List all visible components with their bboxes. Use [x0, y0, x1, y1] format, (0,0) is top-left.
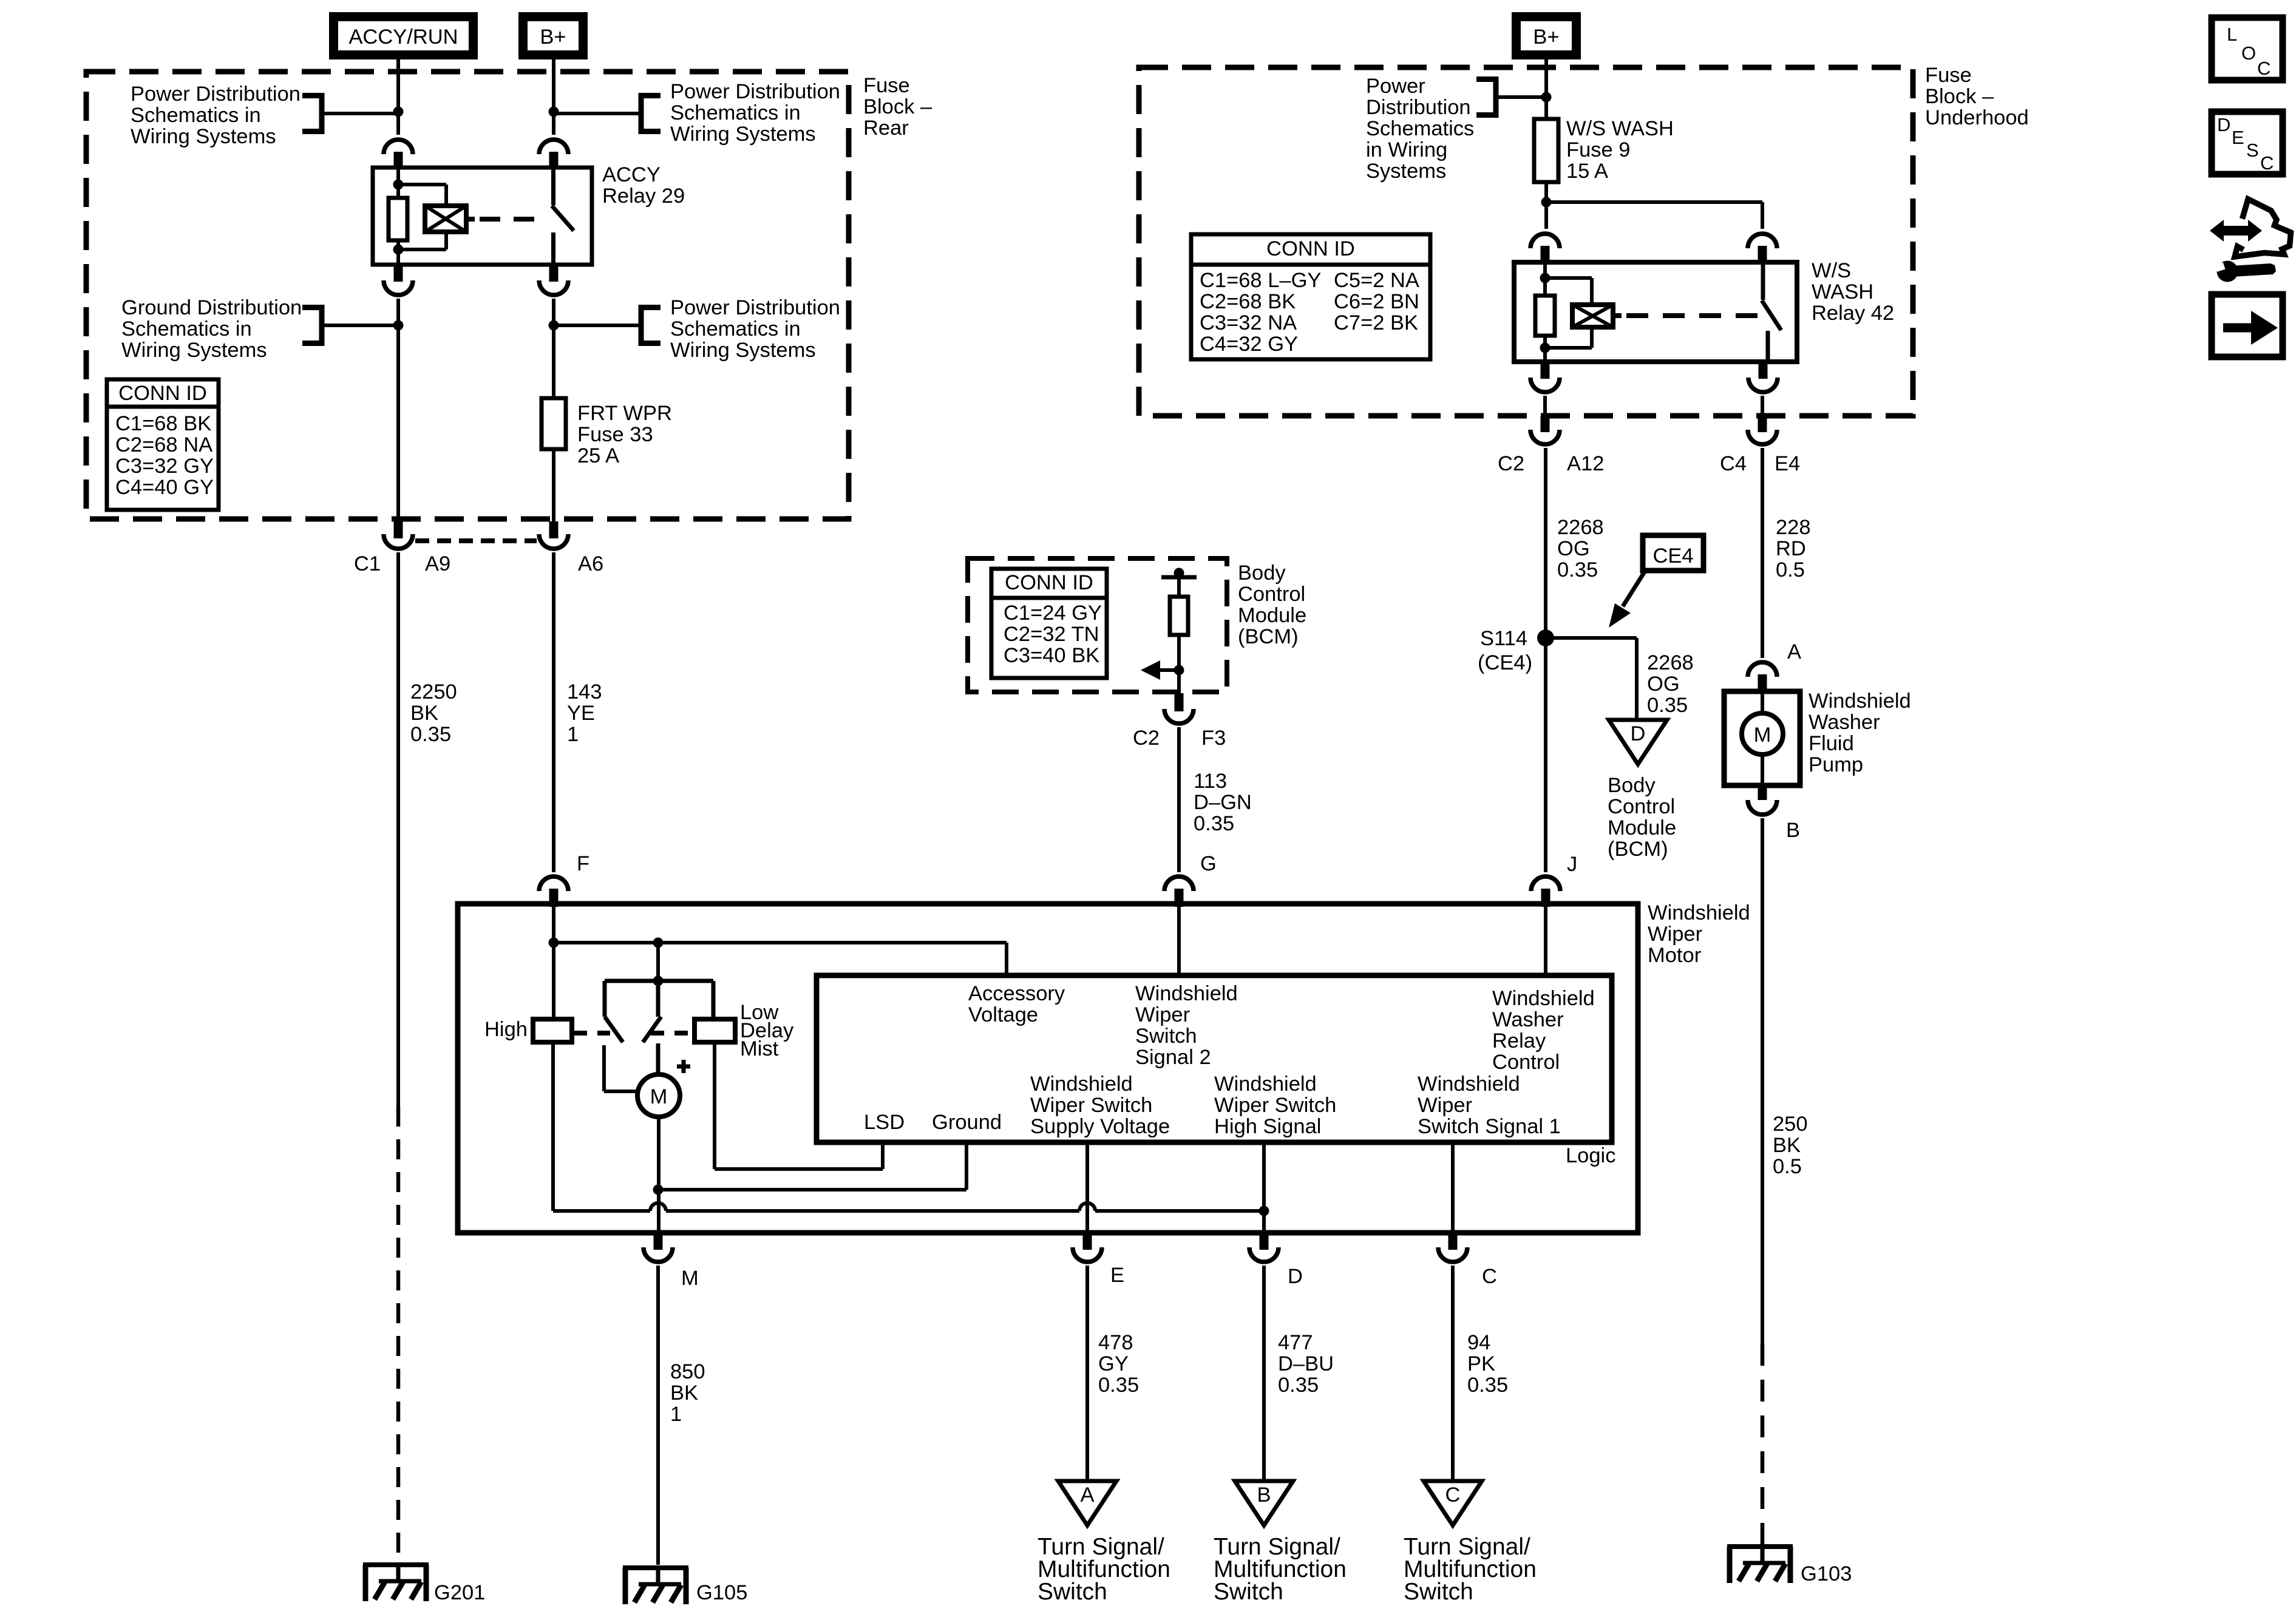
relay 29 switch bottom contact: [551, 232, 555, 265]
svg-text:Power Distribution: Power Distribution: [131, 83, 301, 106]
logic pin leg supply voltage E: [1085, 1142, 1089, 1235]
svg-text:(CE4): (CE4): [1478, 651, 1532, 674]
label Windshield Wiper Motor: [1648, 901, 1750, 967]
node junction B+ x power distribution: [549, 107, 559, 117]
connector dome into relay42 switch side: [1748, 234, 1777, 263]
svg-text:C4=40 GY: C4=40 GY: [115, 476, 214, 499]
svg-text:C1=68 L–GY: C1=68 L–GY: [1200, 269, 1321, 292]
relay 29 coil top node: [393, 180, 404, 190]
label Power Distribution Schematics (lower right): [670, 296, 840, 362]
solenoid relay 29 coil: [425, 206, 466, 232]
module box BCM dashed enclosure: [968, 558, 1227, 692]
label wire 2268 OG 0.35 (branch): [1647, 651, 1694, 717]
svg-text:CONN ID: CONN ID: [1005, 571, 1093, 594]
wiper rocker left drop: [603, 981, 607, 1017]
relay 29 coil bottom node: [393, 245, 404, 255]
svg-text:M: M: [681, 1267, 699, 1290]
svg-text:D: D: [2217, 114, 2230, 135]
svg-text:D–GN: D–GN: [1194, 791, 1252, 814]
svg-text:Rear: Rear: [863, 117, 909, 140]
svg-text:0.35: 0.35: [1647, 694, 1688, 717]
label W/S WASH Relay 42: [1812, 259, 1894, 325]
logic box: [817, 975, 1612, 1142]
svg-text:F: F: [577, 852, 589, 875]
bracket power distribution lower-right: [641, 305, 661, 346]
svg-text:0.5: 0.5: [1776, 558, 1805, 581]
wire to power distribution bracket (top right): [554, 112, 641, 115]
svg-text:D: D: [1288, 1265, 1303, 1288]
svg-text:(BCM): (BCM): [1238, 625, 1299, 648]
wiper switch actuator dashes: [574, 1031, 695, 1036]
relay 29 coil wire top: [396, 168, 400, 185]
svg-text:PK: PK: [1467, 1352, 1495, 1375]
relay 42 coil bypass loop: [1545, 278, 1592, 348]
svg-text:Block –: Block –: [863, 95, 932, 118]
svg-text:M: M: [650, 1085, 668, 1108]
component box windshield wiper motor: [458, 904, 1638, 1233]
relay box W/S WASH Relay 42: [1514, 262, 1797, 362]
svg-text:Windshield: Windshield: [1135, 982, 1238, 1005]
svg-text:S: S: [2246, 140, 2259, 161]
svg-text:W/S: W/S: [1812, 259, 1851, 282]
label J: [1567, 853, 1577, 876]
wire circuit 228 RD: [1761, 448, 1764, 658]
label Fuse Block - Rear: [863, 74, 932, 140]
label C2 (BCM conn): [1133, 727, 1160, 750]
svg-text:E4: E4: [1775, 452, 1800, 475]
connector dome into relay 29 switch side: [539, 140, 568, 169]
svg-text:94: 94: [1467, 1331, 1490, 1354]
svg-text:OG: OG: [1647, 673, 1680, 696]
wiper rocker feed wire: [656, 943, 660, 981]
svg-text:Module: Module: [1608, 816, 1676, 839]
label FRT WPR Fuse 33 25 A: [577, 402, 672, 467]
label wire 250 BK 0.5: [1773, 1113, 1808, 1178]
svg-text:GY: GY: [1098, 1352, 1129, 1375]
svg-text:Wiring Systems: Wiring Systems: [131, 125, 276, 148]
label wire 2250 BK 0.35: [410, 680, 457, 746]
svg-text:O: O: [2241, 42, 2256, 64]
svg-text:0.35: 0.35: [1557, 558, 1598, 581]
table CONN ID (underhood): [1191, 234, 1430, 359]
svg-text:Washer: Washer: [1492, 1008, 1564, 1031]
logic pin leg accessory voltage: [1005, 943, 1008, 975]
svg-text:Fluid: Fluid: [1809, 732, 1854, 755]
label ACCY Relay 29: [602, 163, 685, 208]
wire circuit 250 BK solid segment: [1761, 818, 1764, 1344]
logic pin leg wiper switch signal 2: [1177, 907, 1181, 975]
wiper rocker right blade: [643, 1017, 661, 1042]
svg-text:C6=2 BN: C6=2 BN: [1334, 290, 1419, 313]
node junction B+ x power distribution (underhood): [1541, 92, 1552, 103]
svg-text:15 A: 15 A: [1566, 160, 1608, 183]
wire LSD leg to low contact: [715, 1042, 883, 1169]
wiper rocker center drop: [656, 981, 661, 1017]
BCM internal wire to output node: [1177, 635, 1181, 693]
label G: [1200, 852, 1217, 875]
node junction motor x ground leg: [653, 1185, 664, 1195]
washer pump feed wire: [1761, 693, 1764, 714]
svg-text:BK: BK: [1773, 1134, 1801, 1157]
svg-text:D–BU: D–BU: [1278, 1352, 1334, 1375]
label LSD: [864, 1111, 905, 1134]
icon right-arrow box: [2212, 294, 2283, 357]
label M (motor conn): [681, 1267, 699, 1290]
svg-text:Voltage: Voltage: [968, 1003, 1038, 1026]
svg-text:Fuse: Fuse: [1925, 64, 1972, 87]
svg-text:G: G: [1200, 852, 1217, 875]
svg-text:C: C: [2260, 152, 2274, 174]
svg-text:113: 113: [1194, 770, 1227, 793]
connector stub+cup C4/E4: [1748, 416, 1777, 444]
connector box B+ (rear): [518, 12, 588, 59]
svg-text:Switch Signal 1: Switch Signal 1: [1418, 1115, 1561, 1138]
label Ground: [932, 1111, 1002, 1134]
connector cup out of relay 29 coil side: [384, 265, 413, 295]
ground G201: [363, 1562, 429, 1601]
label Ground Distribution Schematics: [121, 296, 302, 362]
svg-text:Power: Power: [1366, 75, 1425, 98]
wire relay29 coil out to ground distribution node: [396, 299, 400, 398]
label C (motor conn): [1482, 1265, 1497, 1288]
relay 29 switch blade: [552, 206, 574, 231]
label A6: [578, 552, 603, 575]
label D (motor conn): [1288, 1265, 1303, 1288]
svg-text:Windshield: Windshield: [1492, 987, 1595, 1010]
svg-text:CONN ID: CONN ID: [1266, 237, 1355, 260]
relay box ACCY Relay 29: [373, 168, 592, 265]
wire to power distribution bracket (lower right): [554, 324, 639, 327]
label Windshield Wiper Switch High Signal: [1214, 1073, 1336, 1138]
svg-text:Switch: Switch: [1404, 1579, 1473, 1605]
wiper motor output wire: [657, 1117, 661, 1235]
svg-text:Relay 42: Relay 42: [1812, 302, 1894, 325]
connector cup out of relay 29 switch side: [539, 265, 568, 295]
wiper motor internal accessory bus: [554, 943, 1007, 975]
svg-text:850: 850: [670, 1360, 705, 1383]
svg-text:Windshield: Windshield: [1418, 1073, 1520, 1096]
svg-text:LSD: LSD: [864, 1111, 905, 1134]
svg-text:C: C: [2257, 58, 2271, 79]
connector stub+cup M: [644, 1233, 673, 1262]
label A9: [425, 552, 450, 575]
svg-text:0.35: 0.35: [1194, 812, 1234, 835]
label C4: [1720, 452, 1747, 475]
svg-text:B+: B+: [540, 25, 566, 49]
wire circuit 94 PK: [1451, 1266, 1455, 1481]
wire circuit 850 BK: [656, 1266, 660, 1565]
relay 42 coil top node: [1540, 273, 1550, 283]
label Turn Signal Multifunction Switch (B): [1214, 1534, 1347, 1605]
relay 42 coil wire top: [1543, 262, 1547, 278]
svg-text:C1=68 BK: C1=68 BK: [115, 412, 211, 435]
bracket power distribution top-right: [641, 93, 661, 134]
svg-text:Wiring Systems: Wiring Systems: [670, 123, 816, 146]
label Windshield Wiper Switch Signal 1: [1418, 1073, 1561, 1138]
connector stub+cup C2/A12: [1530, 416, 1560, 444]
wiper rocker right drop to low contact: [712, 981, 716, 1019]
relay 42 actuator dashed link: [1613, 313, 1758, 318]
svg-text:FRT WPR: FRT WPR: [577, 402, 672, 425]
label S114 (CE4): [1478, 627, 1532, 674]
svg-text:W/S WASH: W/S WASH: [1566, 117, 1674, 140]
connector cup out of relay 42 coil side: [1530, 362, 1560, 392]
svg-text:Systems: Systems: [1366, 160, 1446, 183]
BCM internal output node: [1174, 665, 1184, 676]
svg-text:Mist: Mist: [740, 1037, 779, 1060]
svg-text:Switch: Switch: [1135, 1025, 1197, 1048]
relay 42 switch top contact: [1761, 262, 1765, 300]
svg-text:Washer: Washer: [1809, 711, 1880, 734]
svg-text:C3=32 GY: C3=32 GY: [115, 455, 214, 478]
wire high feed from High contact down: [551, 1042, 555, 1211]
label Body Control Module BCM: [1238, 561, 1306, 648]
relay 42 switch bottom contact: [1766, 331, 1770, 362]
svg-text:B: B: [1786, 819, 1800, 842]
svg-text:Fuse 9: Fuse 9: [1566, 138, 1630, 161]
node junction high signal bus x D leg: [1259, 1206, 1269, 1216]
label wire 850 BK 1: [670, 1360, 705, 1426]
connector stub+cup C2/F3 out of BCM: [1164, 693, 1194, 724]
wire fuse9 to branch node: [1544, 182, 1548, 229]
resistor BCM internal: [1170, 597, 1188, 635]
ground G105: [623, 1565, 688, 1604]
connector stub+cup D: [1249, 1233, 1279, 1262]
svg-text:Wiper Switch: Wiper Switch: [1030, 1094, 1152, 1117]
wire ACCY/RUN feed into fuse block: [396, 59, 400, 135]
svg-text:Control: Control: [1608, 795, 1675, 818]
svg-text:C1: C1: [354, 552, 381, 575]
wire B+ underhood feed: [1544, 59, 1548, 119]
svg-text:A: A: [1787, 640, 1801, 663]
label Turn Signal Multifunction Switch (C): [1404, 1534, 1537, 1605]
svg-text:Underhood: Underhood: [1925, 106, 2029, 129]
node junction fuse9 branch: [1541, 197, 1552, 208]
svg-text:C2=68 BK: C2=68 BK: [1200, 290, 1296, 313]
label Windshield Wiper Switch Signal 2: [1135, 982, 1238, 1069]
table CONN ID (fuse block rear): [107, 379, 219, 510]
svg-text:Power Distribution: Power Distribution: [670, 80, 840, 103]
label G201: [434, 1581, 485, 1604]
svg-text:L: L: [2227, 24, 2237, 45]
dashed connector tie A9-A6: [415, 538, 537, 543]
svg-text:2268: 2268: [1557, 516, 1604, 539]
wire branch to relay42 switch side: [1546, 202, 1762, 229]
wire to ground distribution bracket: [324, 324, 398, 327]
contact box Low Delay Mist: [695, 1019, 735, 1042]
connector stub+cup C: [1438, 1233, 1467, 1262]
label F3: [1201, 727, 1226, 750]
svg-text:2268: 2268: [1647, 651, 1694, 674]
connector box ACCY/RUN: [329, 12, 478, 59]
connector stub+cup C1/A9: [384, 521, 413, 549]
svg-text:0.35: 0.35: [1098, 1374, 1139, 1397]
bracket ground distribution: [302, 305, 322, 346]
svg-text:C2=32 TN: C2=32 TN: [1004, 623, 1099, 646]
fuse block - rear dashed enclosure: [86, 72, 849, 519]
off-page triangle D to BCM: [1609, 720, 1667, 764]
label Logic: [1566, 1144, 1615, 1167]
label wire 477 D-BU 0.35: [1278, 1331, 1334, 1397]
connector dome into relay 29 coil side: [384, 140, 413, 169]
svg-text:G105: G105: [696, 1581, 747, 1604]
connector dome into relay42 coil side: [1530, 234, 1560, 263]
svg-text:Wiper Switch: Wiper Switch: [1214, 1094, 1336, 1117]
wire relay42 switch out to block edge: [1761, 396, 1764, 419]
svg-text:Power Distribution: Power Distribution: [670, 296, 840, 319]
fuse W/S WASH Fuse 9: [1534, 119, 1558, 182]
svg-text:2250: 2250: [410, 680, 457, 703]
svg-text:Ground: Ground: [932, 1111, 1002, 1134]
svg-text:C7=2 BK: C7=2 BK: [1334, 311, 1418, 334]
svg-text:B+: B+: [1533, 25, 1559, 49]
svg-text:in Wiring: in Wiring: [1366, 138, 1447, 161]
svg-text:G201: G201: [434, 1581, 485, 1604]
wire high signal bus segment 3: [1095, 1209, 1264, 1213]
svg-text:E: E: [2232, 127, 2244, 148]
svg-text:D: D: [1631, 722, 1646, 745]
svg-text:Motor: Motor: [1648, 944, 1701, 967]
relay 42 coil wire bottom: [1543, 348, 1547, 362]
relay 29 coil wire bottom: [396, 249, 400, 265]
svg-text:C3=32 NA: C3=32 NA: [1200, 311, 1297, 334]
svg-text:Wiring Systems: Wiring Systems: [670, 339, 816, 362]
svg-text:0.35: 0.35: [410, 723, 451, 746]
relay 42 switch blade: [1762, 300, 1781, 330]
svg-text:477: 477: [1278, 1331, 1313, 1354]
BCM internal signal arrow: [1141, 660, 1179, 680]
label E (motor conn): [1110, 1264, 1124, 1287]
svg-text:A9: A9: [425, 552, 450, 575]
bracket power distribution underhood: [1476, 76, 1496, 118]
svg-text:S114: S114: [1480, 627, 1527, 650]
wire circuit 2250 BK dashed segment: [396, 1107, 401, 1565]
label G105: [696, 1581, 747, 1604]
svg-text:Wiper: Wiper: [1418, 1094, 1472, 1117]
svg-text:Windshield: Windshield: [1809, 690, 1911, 713]
svg-text:Switch: Switch: [1214, 1579, 1283, 1605]
svg-text:0.35: 0.35: [1278, 1374, 1319, 1397]
wiper motor brush branch: [604, 1045, 637, 1091]
wiper motor armature stub: [656, 1043, 661, 1076]
svg-text:0.35: 0.35: [1467, 1374, 1508, 1397]
relay 29 coil bypass loop: [398, 185, 446, 249]
svg-text:478: 478: [1098, 1331, 1133, 1354]
svg-text:CE4: CE4: [1652, 544, 1693, 568]
logic pin leg switch signal 1 C: [1451, 1142, 1455, 1235]
svg-text:Logic: Logic: [1566, 1144, 1615, 1167]
svg-text:G103: G103: [1801, 1562, 1852, 1585]
svg-text:Wiring Systems: Wiring Systems: [121, 339, 267, 362]
bracket power distribution top-left: [302, 93, 322, 134]
svg-text:Signal 2: Signal 2: [1135, 1046, 1211, 1069]
svg-text:Windshield: Windshield: [1214, 1073, 1317, 1096]
label wire 228 RD 0.5: [1776, 516, 1811, 581]
wire circuit 143 YE down to F: [552, 552, 555, 872]
label High: [484, 1018, 528, 1041]
off-page triangle B: [1235, 1481, 1293, 1525]
off-page triangle C: [1424, 1481, 1482, 1525]
relay 29 switch top contact: [551, 168, 555, 205]
svg-text:(BCM): (BCM): [1608, 838, 1668, 861]
svg-text:CONN ID: CONN ID: [118, 382, 207, 405]
connector dome F into wiper motor: [539, 876, 568, 907]
label B (pump): [1786, 819, 1800, 842]
fuse FRT WPR Fuse 33: [542, 398, 566, 449]
wire circuit 477 D-BU: [1262, 1266, 1266, 1481]
wiper rocker bar: [605, 976, 713, 986]
svg-text:Schematics in: Schematics in: [670, 317, 801, 341]
label wire 2268 OG 0.35: [1557, 516, 1604, 581]
logic pin leg washer relay control: [1544, 907, 1547, 975]
svg-text:E: E: [1110, 1264, 1124, 1287]
callout arrow CE4 to S114: [1609, 572, 1645, 628]
svg-text:Schematics in: Schematics in: [131, 104, 261, 127]
label wire 478 GY 0.35: [1098, 1331, 1139, 1397]
connector dome A into washer pump: [1748, 662, 1777, 693]
svg-text:Schematics in: Schematics in: [121, 317, 252, 341]
label wire 113 D-GN 0.35: [1194, 770, 1252, 835]
svg-text:OG: OG: [1557, 537, 1590, 560]
svg-text:C1=24 GY: C1=24 GY: [1004, 602, 1102, 625]
svg-text:A6: A6: [578, 552, 603, 575]
connector dome G into wiper motor: [1164, 876, 1194, 907]
label wire 94 PK 0.35: [1467, 1331, 1508, 1397]
wire relay42 coil out to block edge: [1543, 396, 1547, 419]
svg-text:C4: C4: [1720, 452, 1747, 475]
svg-text:F3: F3: [1201, 727, 1226, 750]
svg-text:Control: Control: [1492, 1051, 1560, 1074]
svg-text:B: B: [1257, 1483, 1271, 1507]
label Accessory Voltage: [968, 982, 1065, 1026]
svg-text:M: M: [1754, 724, 1771, 747]
svg-text:C2: C2: [1133, 727, 1160, 750]
svg-text:143: 143: [567, 680, 602, 703]
svg-text:Ground Distribution: Ground Distribution: [121, 296, 302, 319]
svg-text:Fuse 33: Fuse 33: [577, 423, 653, 446]
connector box B+ (underhood): [1512, 12, 1581, 59]
label Fuse Block - Underhood: [1925, 64, 2029, 129]
wire ACCY branch to fuse block edge: [396, 328, 400, 521]
wire S114 branch to BCM triangle: [1546, 638, 1637, 720]
solenoid relay 42 coil: [1572, 305, 1613, 327]
ground G103: [1727, 1544, 1793, 1583]
label Power Distribution Schematics (top left): [131, 83, 301, 148]
label C2 (underhood conn): [1498, 452, 1524, 475]
label Turn Signal Multifunction Switch (A): [1038, 1534, 1170, 1605]
svg-text:Windshield: Windshield: [1030, 1073, 1133, 1096]
wire relay29 switch out to power distribution node: [552, 299, 555, 398]
node junction ground distribution: [393, 320, 404, 331]
node junction power distribution lower: [549, 320, 559, 331]
svg-text:ACCY/RUN: ACCY/RUN: [348, 25, 458, 49]
relay 42 coil bottom node: [1540, 343, 1550, 353]
label F: [577, 852, 589, 875]
wire ground leg from logic: [965, 1142, 968, 1190]
svg-text:C: C: [1482, 1265, 1497, 1288]
wire B+ feed into fuse block: [552, 59, 555, 135]
svg-text:1: 1: [670, 1403, 682, 1426]
svg-text:C2: C2: [1498, 452, 1524, 475]
wire circuit 113 D-GN: [1177, 727, 1181, 872]
label wire 143 YE 1: [567, 680, 602, 746]
hop over M column: [650, 1203, 666, 1211]
off-page triangle A: [1058, 1481, 1116, 1525]
wire fuse33 to fuse block edge: [552, 449, 555, 521]
icon service info (arrow + wrench): [2210, 199, 2291, 282]
svg-text:Fuse: Fuse: [863, 74, 910, 97]
washer pump return wire: [1761, 754, 1764, 785]
